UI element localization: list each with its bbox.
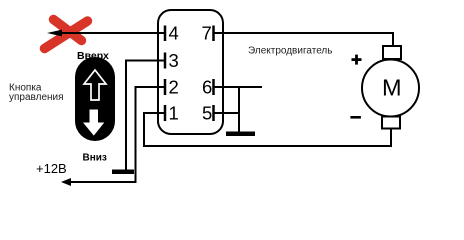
svg-text:Электродвигатель: Электродвигатель — [248, 46, 332, 57]
svg-text:6: 6 — [202, 77, 212, 98]
svg-text:Вниз: Вниз — [83, 152, 107, 163]
svg-text:управления: управления — [9, 92, 64, 103]
svg-text:5: 5 — [202, 103, 212, 124]
svg-text:2: 2 — [169, 77, 179, 98]
svg-text:4: 4 — [169, 23, 179, 44]
svg-text:1: 1 — [169, 103, 179, 124]
svg-text:Вверх: Вверх — [77, 50, 109, 62]
svg-text:3: 3 — [169, 50, 179, 71]
svg-text:7: 7 — [202, 23, 212, 44]
svg-text:+12В: +12В — [36, 161, 67, 176]
svg-text:M: M — [382, 75, 402, 101]
